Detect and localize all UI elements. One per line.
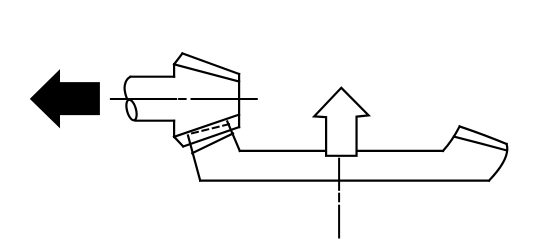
outline up arrow (314, 88, 368, 156)
cone top slant (182, 53, 239, 74)
cone left vertical (upper) (173, 64, 175, 76)
collar bottom edge (183, 127, 239, 146)
shaft top edge (131, 76, 175, 78)
arm left edge (188, 136, 200, 181)
collar corner bevel (174, 137, 183, 147)
arm right edge (227, 122, 240, 151)
cone right vertical (238, 74, 240, 127)
vertical centerline (dash-dot) (338, 159, 340, 238)
solid black left arrow (31, 71, 99, 127)
arm top edge (192, 134, 233, 154)
bar top edge (right of up arrow) (357, 150, 443, 152)
tip bend-up curve (443, 126, 460, 150)
horizontal centerline (shaft axis, dash-dot) (111, 98, 257, 100)
tip end face outer curve (460, 126, 507, 144)
shaft bottom edge (136, 120, 175, 122)
tip end face inner curve (454, 137, 507, 151)
cone chamfer (174, 53, 182, 64)
collar top edge (174, 115, 239, 137)
tip right curve (489, 144, 507, 181)
bar top edge (left of up arrow) (240, 150, 326, 152)
cone left vertical (lower) (173, 121, 175, 137)
bar bottom edge (200, 180, 489, 182)
shaft end-face ellipse (124, 99, 138, 122)
shaft left silhouette arc (125, 77, 131, 100)
cone inner slant (174, 64, 239, 81)
hidden edge (dashed) (192, 124, 229, 133)
